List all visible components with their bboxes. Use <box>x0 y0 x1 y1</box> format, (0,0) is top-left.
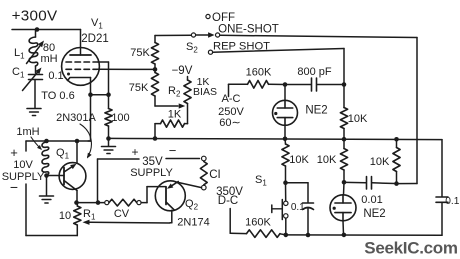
svg-text:10K: 10K <box>289 154 309 166</box>
tube control grid (dashed) <box>66 68 97 70</box>
resistor 160K bottom <box>247 230 281 238</box>
junction 0.01 right node <box>394 181 399 186</box>
label 1K of R2 <box>197 76 210 88</box>
svg-text:160K: 160K <box>245 217 271 229</box>
component CI <box>200 162 207 185</box>
tube cathode <box>68 78 91 81</box>
junction col396 on bus <box>394 137 399 142</box>
svg-text:10K: 10K <box>370 156 390 168</box>
label + of 10V supply <box>10 145 18 160</box>
wire S1 top lead <box>285 183 287 201</box>
label A-C <box>222 93 241 105</box>
wire CV right to Q2 base <box>141 187 166 203</box>
label 0.01 <box>361 194 382 206</box>
svg-text:SUPPLY: SUPPLY <box>130 167 173 179</box>
wire 1mH bottom to Q1 base <box>47 175 65 177</box>
terminal circle CV left <box>105 201 109 205</box>
resistor 160K top <box>248 81 269 89</box>
svg-text:mH: mH <box>40 53 57 65</box>
svg-text:CI: CI <box>209 169 221 181</box>
wire 1K left to bus <box>154 124 156 139</box>
junction col344 bus <box>342 137 347 142</box>
neon lamp NE2 first <box>273 100 298 125</box>
svg-text:D-C: D-C <box>218 195 238 207</box>
label OFF <box>212 12 235 24</box>
resistor 10K above bus <box>340 85 347 140</box>
wire Q1 collector lead <box>76 191 78 203</box>
svg-text:0.1: 0.1 <box>48 70 63 82</box>
svg-text:75K: 75K <box>130 47 150 59</box>
svg-text:160K: 160K <box>246 67 272 79</box>
resistor R1 (10, variable) <box>74 203 81 225</box>
svg-text:−: − <box>169 143 177 158</box>
label C1 <box>12 66 25 80</box>
svg-text:0.01: 0.01 <box>361 194 382 206</box>
wire wiper from 75K lower <box>155 103 185 108</box>
junction coil 1mH top <box>44 139 49 144</box>
wire S1 bottom lead <box>285 218 287 235</box>
label 10K col285 <box>289 154 309 166</box>
wire +300V rail <box>12 29 81 31</box>
inductor 1mH <box>42 142 49 175</box>
leader arrow from 1mH to coil <box>31 137 42 150</box>
junction NE2-2 on rail <box>342 233 347 238</box>
svg-text:+: + <box>10 145 18 160</box>
label D-C <box>218 195 238 207</box>
wire bottom return to R1 <box>26 225 77 236</box>
wire cathode node <box>91 94 109 96</box>
svg-text:60∼: 60∼ <box>219 117 240 129</box>
capacitor 800 pF <box>287 78 342 91</box>
transistor Q2 <box>155 181 185 211</box>
label 0.1 of C1 <box>48 70 63 82</box>
terminal circle CI top <box>202 156 207 161</box>
wiper arrow into R1 from Q2 <box>83 220 171 225</box>
wire 0.01 node to one-shot line <box>397 183 418 185</box>
neon lamp NE2 second <box>330 195 356 221</box>
junction cathode node left <box>88 92 93 97</box>
label L1 <box>14 47 25 61</box>
wire 1mH bottom to ground <box>46 176 48 196</box>
wire Q1 emitter lead <box>76 141 78 163</box>
label 800 pF <box>297 66 332 78</box>
svg-text:1K: 1K <box>168 109 182 121</box>
label BIAS <box>193 86 217 98</box>
switch S2 pivot <box>191 33 195 37</box>
capacitor C1 (variable 0.1 TO 0.6) <box>23 68 43 109</box>
svg-text:2D21: 2D21 <box>81 33 109 45</box>
ground at bus <box>102 139 116 154</box>
label + of 35V supply <box>131 145 138 159</box>
tube shield grid (dashed) <box>66 62 109 95</box>
wire NE2-1 bottom lead <box>284 125 286 139</box>
wire main bus <box>109 138 443 139</box>
label TO 0.6 <box>41 90 74 102</box>
label CI <box>209 169 221 181</box>
svg-text:+300V: +300V <box>12 8 58 25</box>
junction col344 mid node <box>342 180 347 185</box>
label 10V <box>13 159 33 171</box>
label 80 <box>43 42 55 54</box>
resistor 10K col344 below bus <box>340 139 347 182</box>
wire 35V supply right stub <box>166 158 200 160</box>
junction NE2-1 on bus <box>283 137 288 142</box>
label 100 <box>111 112 129 124</box>
ground below 1mH <box>40 196 54 203</box>
resistor 75K upper <box>151 36 158 70</box>
label mH <box>40 53 57 65</box>
wire Q2 collector down-left <box>170 210 172 223</box>
svg-text:75K: 75K <box>129 82 149 94</box>
label 10 of R1 <box>59 210 71 222</box>
label ONE-SHOT <box>218 24 279 36</box>
terminal circle CI bottom <box>202 185 207 190</box>
label 350V <box>216 186 243 198</box>
wire 350V stub <box>230 209 246 234</box>
svg-text:CV: CV <box>114 208 130 220</box>
wire 160K to rail <box>280 234 286 235</box>
svg-text:+: + <box>131 145 138 159</box>
switch S2 arm <box>196 32 215 37</box>
label 160K top <box>246 67 272 79</box>
label R1 <box>83 208 96 222</box>
junction 35V supply tap <box>96 200 101 205</box>
svg-text:10V: 10V <box>13 159 33 171</box>
switch S2 contact OFF <box>206 14 210 18</box>
label 250V <box>218 106 244 118</box>
resistor 10K col285 <box>282 139 289 183</box>
resistor 75K lower <box>151 69 158 106</box>
label 60~ <box>219 117 240 129</box>
wire REP SHOT line <box>213 49 344 85</box>
svg-text:NE2: NE2 <box>305 105 327 117</box>
label minus of 10V supply <box>10 179 18 195</box>
resistor 100 <box>105 95 112 139</box>
switch S2 contact ONE-SHOT <box>216 33 220 37</box>
svg-text:BIAS: BIAS <box>193 86 217 98</box>
wire Q2 emitter to CI <box>179 183 202 188</box>
svg-text:0.1: 0.1 <box>291 202 305 213</box>
label Q2 <box>185 198 199 212</box>
svg-text:100: 100 <box>111 112 129 124</box>
terminal - of 10V supply <box>25 184 27 236</box>
svg-text:10: 10 <box>59 210 71 222</box>
capacitor 0.01 <box>346 177 395 190</box>
label R2 <box>168 85 181 99</box>
label SUPPLY of 35V <box>130 167 173 179</box>
svg-text:SeekIC.com: SeekIC.com <box>364 239 458 258</box>
svg-text:0.1: 0.1 <box>445 196 459 207</box>
wire plate lead from rail <box>80 30 82 56</box>
wire 160K to NE2 node <box>269 83 286 85</box>
label S1 <box>255 174 267 188</box>
svg-text:−9V: −9V <box>172 65 193 77</box>
node R1 top junction <box>74 200 79 205</box>
label 1mH <box>16 126 39 138</box>
label 2N174 <box>177 217 209 229</box>
label 10K col396 <box>370 156 390 168</box>
junction Q1 emitter rail <box>75 139 80 144</box>
svg-text:1mH: 1mH <box>16 126 39 138</box>
wire NE2-2 bottom lead <box>342 221 345 235</box>
label 0.1 beside S1 <box>291 202 305 213</box>
label 1K horizontal <box>168 109 182 121</box>
label 160K bottom <box>245 217 271 229</box>
junction 100 bottom on bus <box>106 136 111 141</box>
label 2N301A <box>56 112 96 124</box>
wire control grid to divider <box>97 68 155 70</box>
label minus of 35V supply <box>169 143 177 158</box>
tube plate <box>70 54 91 56</box>
label SUPPLY of 10V <box>2 171 45 183</box>
label Q1 <box>56 147 70 161</box>
junction on +300V rail <box>35 27 40 32</box>
wire 10V rail <box>26 140 91 142</box>
wire bottom rail <box>286 234 442 236</box>
junction NE2 top node <box>283 82 288 87</box>
svg-text:10K: 10K <box>317 154 337 166</box>
label 75K upper <box>130 47 150 59</box>
terminal + of 10V supply <box>25 141 27 151</box>
svg-text:2N174: 2N174 <box>177 217 209 229</box>
capacitor 0.1 rightmost <box>436 140 448 236</box>
svg-text:ONE-SHOT: ONE-SHOT <box>218 24 279 36</box>
wire S2 feed <box>155 34 191 36</box>
label REP SHOT <box>213 41 270 53</box>
svg-text:NE2: NE2 <box>363 208 385 220</box>
junction S1 top node <box>283 180 288 185</box>
label NE2 first <box>305 105 327 117</box>
junction 1mH bottom <box>44 173 49 178</box>
transistor Q1 <box>59 163 86 191</box>
junction grid node <box>153 67 158 72</box>
wire cathode lead <box>90 78 92 95</box>
wire NE2-2 top lead <box>343 182 346 195</box>
label 2D21 <box>81 33 109 45</box>
label CV <box>114 208 130 220</box>
ground below C1 <box>27 109 41 116</box>
label 35V <box>142 156 163 168</box>
label 0.1 rightmost <box>445 196 459 207</box>
wire R1 top to CV <box>77 202 105 204</box>
leader arc from 2N301A to Q1 <box>80 124 92 159</box>
tube V1 2D21 envelope <box>62 48 100 86</box>
capacitor 0.1 beside S1 <box>286 183 314 235</box>
resistor 10K col396 <box>393 139 400 183</box>
wire ONE-SHOT line <box>220 35 417 183</box>
resistor 1K <box>155 120 188 127</box>
junction S1 on rail <box>284 233 289 238</box>
label V1 <box>91 17 103 31</box>
node +300V label <box>12 8 58 25</box>
label -9V <box>172 65 193 77</box>
junction 1K on bus <box>153 136 158 141</box>
switch S2 contact REP SHOT <box>208 50 212 54</box>
watermark SeekIC.com <box>364 239 458 258</box>
label 75K lower <box>129 82 149 94</box>
wire A-C stub <box>229 84 248 96</box>
switch S1 <box>272 200 288 220</box>
svg-text:800 pF: 800 pF <box>297 66 332 78</box>
svg-text:A-C: A-C <box>222 93 241 105</box>
label 10K above bus <box>348 113 368 125</box>
svg-text:−: − <box>10 179 18 195</box>
terminal circle CV right <box>137 201 141 205</box>
label S2 <box>186 41 198 55</box>
resistor CV <box>109 199 137 206</box>
wire 35V supply left stub <box>98 159 140 203</box>
wire cathode down to 10V rail <box>88 95 91 141</box>
inductor L1 (variable 80 mH) <box>27 30 45 74</box>
junction 0.1 on rail <box>306 233 311 238</box>
potentiometer R2 (1K BIAS) <box>184 77 191 124</box>
tube pin dot <box>67 73 70 76</box>
label NE2 second <box>363 208 385 220</box>
wire NE2-1 top lead <box>284 85 286 101</box>
svg-text:SUPPLY: SUPPLY <box>2 171 45 183</box>
svg-text:OFF: OFF <box>212 12 235 24</box>
svg-text:10K: 10K <box>348 113 368 125</box>
junction 800pF right node <box>342 82 347 87</box>
label 10K col344 below <box>317 154 337 166</box>
junction cathode node right <box>106 92 111 97</box>
svg-text:TO 0.6: TO 0.6 <box>41 90 74 102</box>
